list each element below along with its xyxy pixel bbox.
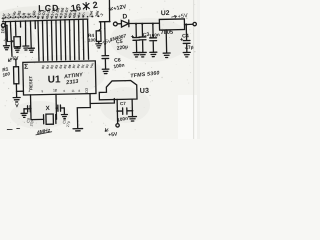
label C8 27p	[26, 117, 34, 126]
lcd data wire 3	[46, 20, 49, 60]
U3 pin 3	[131, 99, 133, 111]
U3 pin3 to ground	[131, 111, 133, 117]
arrow under ground R1	[15, 104, 18, 107]
microcontroller U1 box	[23, 61, 96, 95]
label 7805	[161, 30, 174, 36]
label C3	[142, 32, 150, 39]
backlight pin K stub	[104, 22, 106, 29]
label +5V near K	[102, 38, 113, 46]
svg-text:U3: U3	[140, 86, 149, 95]
scan noise speckles	[3, 1, 195, 131]
+12V arrow	[109, 7, 113, 10]
junction dot C3	[141, 23, 143, 25]
capacitor C8 left	[24, 106, 31, 112]
+12V supply label	[113, 4, 127, 13]
svg-text:5: 5	[55, 89, 57, 93]
lcd data wire 11	[82, 19, 85, 59]
regulator U2 box	[159, 19, 184, 30]
input terminal	[113, 22, 117, 26]
U3 pin 1	[116, 99, 118, 111]
capacitor C3	[139, 24, 146, 53]
wiper wire from input terminal	[6, 26, 8, 42]
junction dot C4	[185, 23, 187, 25]
label C9 27p	[62, 118, 71, 127]
svg-text:U2: U2	[161, 10, 170, 17]
U1 bottom pin label 17	[53, 88, 57, 92]
svg-text:Σ: Σ	[24, 64, 28, 71]
lcd data wire 9	[74, 20, 75, 60]
LCD header line	[2, 19, 87, 22]
trimmer P1 body	[14, 37, 21, 47]
label U2	[161, 10, 170, 17]
capacitor C5 plates	[133, 37, 140, 52]
junction dot 100n cap	[152, 23, 154, 25]
arrow +5V U3	[105, 128, 108, 131]
wire pin3 to trimmer	[15, 25, 17, 35]
label C6 100n	[113, 57, 125, 70]
svg-text:U1: U1	[48, 74, 61, 85]
crystal X body	[46, 114, 54, 124]
label 2313	[65, 79, 79, 87]
lcd data wire 10	[78, 19, 79, 59]
wire pin K down	[104, 29, 106, 44]
trimmer wiper arrow	[7, 40, 13, 42]
wire diode to U2	[129, 23, 160, 24]
svg-text:C4: C4	[182, 33, 189, 39]
+5V terminal U3	[116, 124, 119, 127]
gnd bar bottom	[73, 129, 83, 131]
U1 top pin labels	[41, 62, 95, 70]
capacitor C5 wire	[135, 24, 137, 38]
label RESET	[28, 75, 33, 90]
label 100n U3	[117, 116, 129, 124]
lcd data wire 12	[88, 19, 89, 59]
ground pin1	[3, 46, 9, 50]
polarity plus C5	[131, 35, 133, 37]
junction dot xtal left	[30, 108, 32, 110]
resistor R4 body	[96, 31, 101, 42]
ground under trimmer	[15, 48, 20, 52]
input terminal circle	[1, 23, 5, 27]
label U3	[140, 86, 149, 95]
U1 to U3 wire	[90, 93, 114, 103]
lcd data wire 6	[59, 20, 62, 60]
scan shading right edge	[193, 0, 194, 139]
label C7	[120, 101, 126, 106]
svg-text:D3: D3	[85, 88, 89, 93]
junction dots U3 pins	[116, 110, 118, 112]
svg-text:D: D	[122, 13, 127, 20]
wire pin5 to ground	[24, 25, 27, 46]
ground U3	[128, 117, 136, 122]
wire U2 out	[184, 23, 193, 25]
capacitor C4	[183, 24, 190, 52]
label 1N4007	[109, 33, 127, 43]
crystal leads	[31, 118, 56, 121]
lcd data wire 5	[55, 20, 58, 60]
R1 bottom wire	[16, 84, 23, 92]
U1 gnd drop wire	[77, 104, 91, 129]
label ATTINY	[63, 72, 84, 81]
U1 pin1 clock mark	[24, 64, 28, 71]
label 4MHz	[35, 128, 51, 137]
wire K to C6	[104, 44, 106, 55]
capacitor C7	[117, 108, 132, 115]
lcd data wire 4	[50, 20, 53, 60]
lcd data wire 1	[38, 21, 39, 61]
scan mottling	[0, 6, 200, 139]
ground C4	[183, 52, 190, 57]
R1 ground branch	[16, 91, 18, 97]
label 47u	[185, 44, 194, 51]
ground pin5	[23, 46, 29, 50]
underline 4MHz	[36, 132, 52, 135]
+5V out arrow	[172, 15, 177, 18]
lcd data wire 7	[64, 20, 67, 60]
pin terminal dot band	[5, 14, 100, 20]
svg-text:RESET: RESET	[28, 75, 33, 90]
diode D body	[121, 20, 129, 27]
label X	[46, 105, 51, 112]
IR receiver U3 body	[99, 80, 137, 99]
junction dot xtal right	[55, 107, 57, 109]
LCD pin stubs left group	[5, 21, 35, 30]
backlight bar	[99, 21, 110, 23]
capacitor C6	[102, 56, 109, 69]
resistor R1 label	[2, 66, 11, 78]
capacitor 100n	[149, 24, 156, 53]
wire pin6 short to ground	[30, 25, 33, 48]
label D	[122, 13, 127, 20]
+5V out label	[177, 13, 188, 20]
ground 100n cap	[150, 52, 157, 57]
LCD pin labels	[1, 6, 104, 19]
star of 16x2	[83, 2, 89, 9]
polarity plus C4	[180, 38, 182, 40]
R1 top wire to +5V	[15, 59, 17, 66]
wire pin2 to +5V	[11, 26, 12, 57]
capacitor C9 right	[56, 105, 64, 111]
U1 pin label D3 vertical	[85, 88, 89, 93]
svg-text:+5V: +5V	[108, 131, 118, 138]
wire terminal to diode	[117, 23, 121, 25]
label C4	[182, 33, 189, 39]
label TFMS5360	[130, 70, 160, 79]
wire terminal to wiper	[5, 24, 7, 26]
+12V feed wire	[108, 0, 111, 21]
+5V label left	[9, 55, 19, 62]
lcd data wire 2	[41, 20, 44, 60]
junction dot C5	[135, 23, 137, 25]
squiggle above terminal	[2, 18, 5, 21]
junction dot K line	[104, 43, 106, 45]
crystal plates	[44, 115, 56, 124]
lcd data wire 8	[68, 20, 71, 60]
label R4	[88, 33, 96, 43]
label 10k	[0, 25, 6, 34]
svg-text:10k: 10k	[0, 25, 6, 33]
ground C9	[61, 108, 67, 119]
smudge under pin band	[3, 12, 89, 21]
backlight pin A stub	[100, 22, 102, 29]
wire pin1 to ground	[5, 26, 8, 46]
ground C3	[139, 52, 146, 57]
svg-text:4: 4	[28, 89, 30, 93]
svg-text:11: 11	[71, 89, 75, 93]
label C5 220u	[116, 39, 129, 52]
misc specks bottom left	[7, 127, 20, 130]
label 100n	[149, 32, 160, 39]
svg-text:+5V: +5V	[177, 13, 188, 20]
svg-text:100: 100	[88, 37, 96, 42]
trimmer bottom to ground	[16, 47, 18, 48]
paper background	[0, 0, 200, 139]
R4 wire jog	[98, 29, 100, 31]
ground U2	[163, 53, 170, 58]
label +5V U3	[108, 131, 118, 138]
ground C8	[21, 109, 27, 118]
ground under R4	[96, 41, 102, 48]
svg-text:C6: C6	[114, 58, 121, 64]
U3 pin1 wire to terminal	[116, 111, 118, 124]
title LCD 16x2	[38, 0, 98, 14]
XTAL1 wire	[30, 95, 33, 120]
U1 bottom pin label 4 5	[28, 88, 80, 94]
ground C5	[133, 52, 140, 57]
XTAL2 wire	[55, 94, 58, 119]
resistor R1 body	[14, 67, 19, 84]
ground pin6	[28, 48, 34, 52]
label +5v small	[3, 37, 8, 42]
output terminal	[193, 22, 196, 25]
arrow +5V	[8, 59, 11, 62]
U2 gnd pin	[165, 30, 167, 53]
label U1	[48, 74, 61, 85]
svg-text:C7: C7	[120, 101, 126, 106]
ground C6	[102, 69, 109, 74]
ground R1	[13, 97, 20, 102]
junction dot R1 top	[15, 59, 17, 61]
